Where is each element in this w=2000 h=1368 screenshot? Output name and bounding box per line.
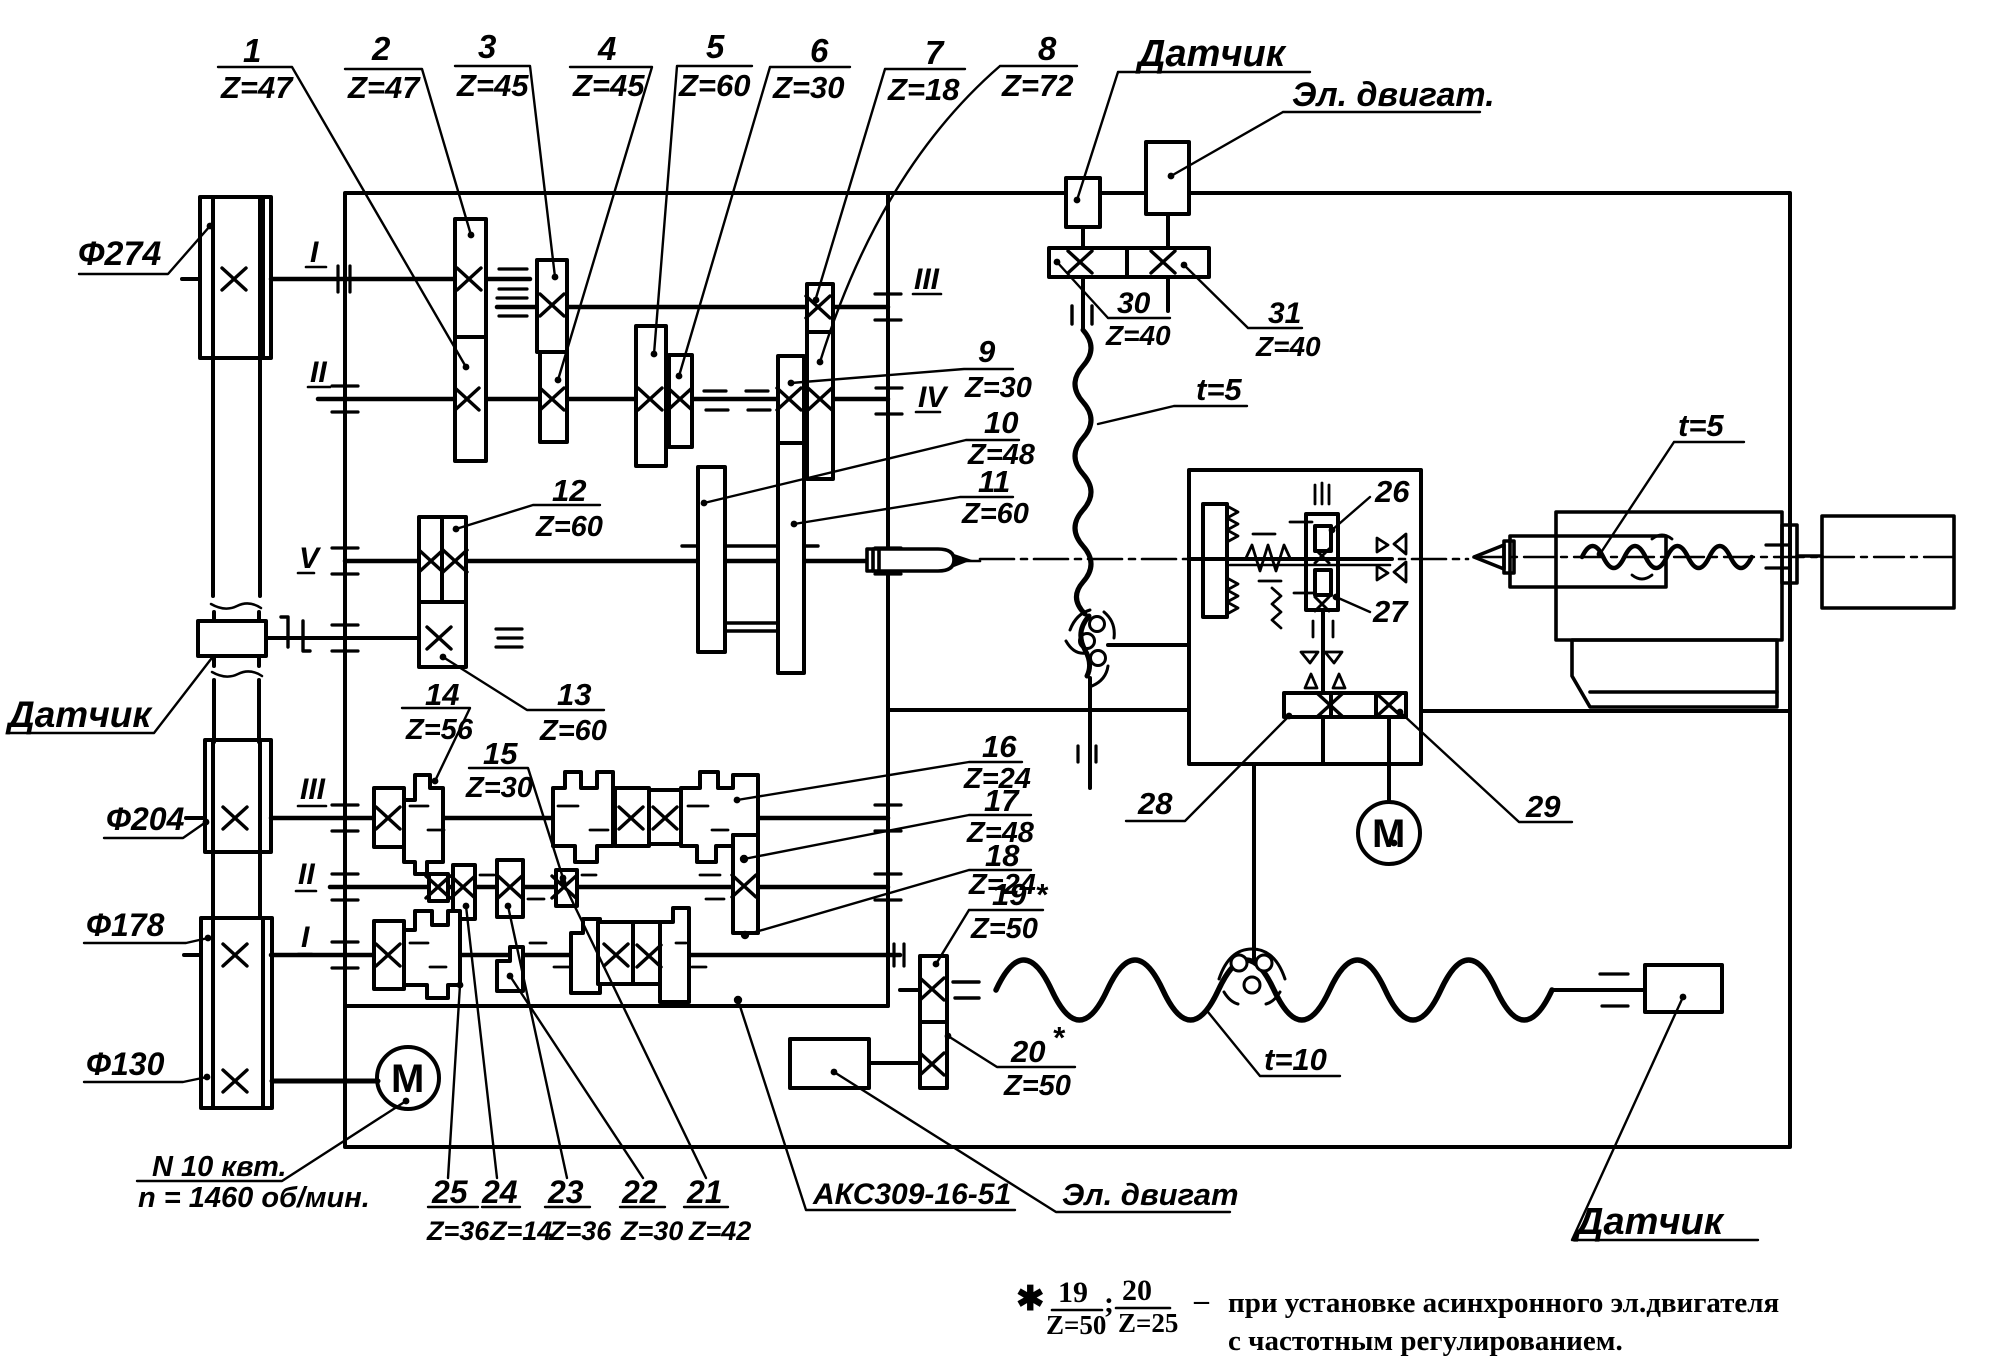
gear 14 Z=56 castle bbox=[404, 775, 443, 874]
svg-text:II: II bbox=[298, 858, 315, 891]
svg-text:Z=36: Z=36 bbox=[548, 1216, 612, 1246]
belt middle run bbox=[214, 612, 259, 666]
labels 15-19,20 bbox=[469, 762, 1075, 1067]
svg-text:I: I bbox=[310, 236, 319, 269]
svg-text:19: 19 bbox=[1058, 1276, 1088, 1309]
gear 30 Z=40 bbox=[1049, 248, 1127, 277]
svg-text:1: 1 bbox=[243, 32, 261, 69]
shaft II / IV bbox=[318, 397, 888, 402]
svg-text:Z=30: Z=30 bbox=[465, 772, 533, 804]
zigzag pawl bbox=[1272, 588, 1281, 628]
coupling sensor shaft bbox=[281, 617, 310, 651]
shaft II mid bearings bbox=[704, 391, 770, 410]
svg-text:31: 31 bbox=[1268, 297, 1301, 330]
label F204 leader bbox=[104, 822, 206, 838]
tailstock screw collar bbox=[1782, 525, 1797, 583]
svg-text:Датчик: Датчик bbox=[1135, 33, 1287, 75]
svg-text:Z=36: Z=36 bbox=[426, 1216, 490, 1246]
svg-text:t=5: t=5 bbox=[1196, 372, 1242, 407]
svg-text:Ф130: Ф130 bbox=[86, 1046, 165, 1082]
belt break squiggle bbox=[211, 603, 261, 608]
svg-text:Z=50: Z=50 bbox=[1046, 1310, 1106, 1340]
gear 13 Z=60 bbox=[419, 602, 466, 667]
vertical stubs sensor/motor to gears bbox=[1083, 214, 1168, 248]
svg-text:20: 20 bbox=[1122, 1274, 1152, 1307]
svg-text:Z=50: Z=50 bbox=[970, 913, 1038, 945]
gear 6 Z=30 bbox=[669, 355, 692, 447]
stub shaft to gear 19 bbox=[900, 988, 920, 992]
gear 11 Z=60 bbox=[778, 443, 804, 673]
sensor box right bbox=[1645, 965, 1722, 1012]
svg-text:Z=25: Z=25 bbox=[1118, 1308, 1178, 1338]
svg-text:;: ; bbox=[1104, 1286, 1114, 1319]
castle gear block shaft III left bbox=[553, 772, 613, 862]
svg-text:3: 3 bbox=[478, 28, 496, 65]
dog clutch triangles bbox=[1377, 538, 1388, 580]
gear 12 Z=60 bbox=[419, 517, 466, 602]
X marks lower gears bbox=[376, 807, 400, 829]
label F178 leader bbox=[84, 938, 208, 943]
vertical leadscrew t=5 wave bbox=[1075, 330, 1091, 614]
svg-text:M: M bbox=[391, 1057, 424, 1101]
castle gear block shaft III right bbox=[681, 772, 758, 862]
X marks gears 19/20 bbox=[920, 978, 944, 1000]
ball nut on t=10 bbox=[1219, 949, 1285, 1004]
labels top right bbox=[1057, 72, 1480, 424]
svg-text:Z=50: Z=50 bbox=[1003, 1070, 1071, 1102]
svg-text:16: 16 bbox=[982, 729, 1017, 764]
svg-text:Z=60: Z=60 bbox=[539, 715, 607, 747]
svg-text:Эл. двигат.: Эл. двигат. bbox=[1292, 76, 1495, 114]
svg-text:Z=30: Z=30 bbox=[620, 1216, 683, 1246]
belt upper run bbox=[213, 197, 260, 596]
leaders labels 21-25 and AKC bbox=[428, 985, 478, 1207]
svg-text:23: 23 bbox=[547, 1174, 584, 1210]
svg-text:II: II bbox=[310, 356, 327, 389]
feed leadscrew t=10 wave bbox=[996, 960, 1552, 1020]
t=10 screw end shaft bbox=[1552, 988, 1645, 992]
apron box bbox=[1189, 470, 1421, 764]
vertical link apron to t=10 nut bbox=[1252, 764, 1256, 958]
lower gearbox shafts bbox=[271, 818, 900, 955]
shaft V bbox=[345, 559, 868, 564]
svg-text:Z=40: Z=40 bbox=[1255, 331, 1321, 362]
svg-text:V: V bbox=[299, 542, 322, 575]
svg-text:28: 28 bbox=[1137, 786, 1173, 821]
leaders labels 26-29 bbox=[1332, 497, 1370, 530]
motor box top bbox=[1146, 142, 1189, 214]
bearing dashes before right sensor bbox=[1600, 974, 1628, 1006]
svg-text:Z=45: Z=45 bbox=[572, 68, 645, 103]
gear 5 Z=60 bbox=[636, 326, 666, 466]
shaft stubs left of pulleys bbox=[182, 279, 205, 955]
sensor shaft bbox=[266, 636, 419, 640]
svg-text:9: 9 bbox=[978, 334, 996, 369]
svg-text:22: 22 bbox=[621, 1174, 658, 1210]
wall bearing at center line bbox=[875, 548, 901, 574]
svg-text:7: 7 bbox=[925, 34, 945, 71]
pulley D274 bbox=[200, 197, 271, 358]
label F274 leader bbox=[79, 226, 210, 274]
svg-text:14: 14 bbox=[425, 677, 459, 712]
bore dashes lower gears bbox=[410, 806, 728, 967]
svg-text:Z=30: Z=30 bbox=[772, 70, 845, 105]
tailstock bbox=[1474, 512, 1954, 707]
gear 10 Z=48 bbox=[698, 467, 725, 652]
apron box bbox=[1189, 470, 1421, 958]
vertical shaft below halfnut bbox=[1321, 610, 1325, 764]
shaft III upper bbox=[497, 305, 888, 310]
svg-text:t=5: t=5 bbox=[1678, 408, 1724, 443]
svg-text:Z=42: Z=42 bbox=[688, 1216, 751, 1246]
svg-text:Z=18: Z=18 bbox=[887, 72, 960, 107]
svg-text:10: 10 bbox=[984, 405, 1018, 440]
gear 19 Z=50 bbox=[920, 956, 947, 1022]
svg-text:Z=60: Z=60 bbox=[678, 68, 751, 103]
svg-text:n = 1460 об/мин.: n = 1460 об/мин. bbox=[138, 1182, 370, 1214]
X marks upper gears bbox=[457, 268, 481, 290]
centre line bbox=[1474, 556, 1960, 558]
gear13 right bearing bbox=[496, 629, 522, 647]
svg-text:18: 18 bbox=[985, 838, 1020, 873]
shaft I right bearing bbox=[499, 269, 527, 289]
svg-text:M: M bbox=[1372, 812, 1405, 856]
svg-text:АКС309-16-51: АКС309-16-51 bbox=[812, 1178, 1011, 1211]
motor box AKC309 bbox=[790, 1039, 869, 1088]
svg-text:–: – bbox=[1193, 1284, 1210, 1317]
svg-text:Ф204: Ф204 bbox=[106, 801, 185, 837]
shaft III left bearing bbox=[497, 298, 527, 316]
svg-text:26: 26 bbox=[1374, 474, 1410, 509]
chuck / spindle nose bbox=[867, 549, 972, 571]
motor shaft to gear 20 bbox=[869, 1061, 920, 1065]
svg-text:t=10: t=10 bbox=[1264, 1042, 1327, 1077]
slide bracket bbox=[725, 623, 778, 631]
labels 26-29 bbox=[1126, 497, 1572, 822]
label t=5 tailstock leader bbox=[1600, 442, 1744, 554]
lower shaft I bbox=[271, 953, 900, 958]
gear with X shaft III a bbox=[615, 788, 649, 846]
svg-text:I: I bbox=[301, 921, 310, 954]
gears on lower shaft I bbox=[374, 921, 404, 989]
gear with X shaft III b bbox=[649, 790, 681, 844]
bottom labels 21-25 + AKC bbox=[428, 882, 1230, 1212]
halfnut 26/27 body bbox=[1306, 514, 1338, 610]
leader sensor right + t=10 label bbox=[1572, 997, 1758, 1240]
gear 8 Z=72 bbox=[807, 332, 833, 479]
X mark pulley F204 bbox=[223, 807, 247, 829]
lower shaft II bbox=[330, 885, 888, 890]
leaders top right labels bbox=[1077, 72, 1310, 200]
X mark pulley F274 bbox=[222, 268, 246, 290]
svg-text:Ф274: Ф274 bbox=[78, 235, 161, 273]
X marks gears 28/29 bbox=[1318, 694, 1342, 716]
svg-text:21: 21 bbox=[686, 1174, 723, 1210]
lower shaft III bbox=[271, 816, 888, 821]
X marks halfnut bbox=[1315, 549, 1329, 563]
svg-text:III: III bbox=[914, 263, 940, 296]
tailstock quill bbox=[1510, 536, 1666, 587]
spring bbox=[1246, 545, 1290, 571]
pulley D178/D130 block bbox=[201, 918, 272, 1108]
rack bar bbox=[1203, 504, 1227, 617]
shaft to motor M apron bbox=[1387, 717, 1391, 802]
outer frame bbox=[345, 193, 1790, 1147]
svg-text:Z=60: Z=60 bbox=[535, 511, 603, 543]
tailstock body bbox=[1556, 512, 1782, 640]
motor M apron circle bbox=[1358, 802, 1420, 864]
triangles on vertical shaft bbox=[1301, 652, 1342, 663]
belt lower run bbox=[213, 852, 260, 918]
svg-text:17: 17 bbox=[984, 783, 1020, 818]
gear 31 Z=40 bbox=[1127, 248, 1209, 277]
gear 16/17/18 column bbox=[733, 835, 758, 933]
leaders labels 9-14 bbox=[791, 369, 1013, 383]
svg-text:29: 29 bbox=[1525, 789, 1561, 824]
leaders labels 15-20 bbox=[469, 768, 563, 878]
motor M main circle bbox=[377, 1047, 439, 1109]
svg-text:✱: ✱ bbox=[1016, 1281, 1045, 1318]
svg-text:Z=14: Z=14 bbox=[489, 1216, 552, 1246]
svg-text:20: 20 bbox=[1010, 1034, 1045, 1069]
lower cluster gears: shaft III row bbox=[374, 772, 758, 1002]
gear on lower shaft III bbox=[374, 788, 404, 847]
shaft I bbox=[271, 277, 530, 282]
svg-text:при установке асинхронного эл.: при установке асинхронного эл.двигателя bbox=[1228, 1287, 1779, 1319]
shaft roman labels bbox=[296, 267, 941, 954]
gear 3 Z=45 bbox=[537, 260, 567, 352]
gears on lower shaft II bbox=[453, 865, 475, 919]
svg-text:IV: IV bbox=[918, 381, 949, 414]
X mark pulley F130 bbox=[223, 1070, 247, 1092]
svg-text:25: 25 bbox=[431, 1174, 469, 1210]
svg-text:Z=40: Z=40 bbox=[1105, 320, 1171, 351]
svg-text:Z=60: Z=60 bbox=[961, 498, 1029, 530]
ball nut on vertical screw bbox=[1090, 617, 1105, 632]
svg-text:12: 12 bbox=[552, 473, 586, 508]
label F130 leader bbox=[84, 1077, 207, 1082]
gear 20 Z=50 bbox=[920, 1022, 947, 1088]
motor shaft to M bbox=[272, 1079, 378, 1084]
X mark pulley F178 bbox=[223, 944, 247, 966]
partition wall bbox=[886, 193, 890, 1006]
svg-text:Z=72: Z=72 bbox=[1001, 68, 1074, 103]
shaft I label bearing ticks bbox=[338, 266, 350, 292]
svg-text:13: 13 bbox=[557, 677, 591, 712]
vertical leadscrew t=5 bbox=[1075, 330, 1091, 788]
footnote text bbox=[1016, 1274, 1779, 1357]
ball nut on t=10 screw bbox=[1219, 949, 1285, 979]
svg-text:Эл. двигат: Эл. двигат bbox=[1062, 1177, 1239, 1212]
sensor box left bbox=[198, 617, 419, 1081]
bed line left of apron bbox=[888, 708, 1189, 712]
underlines shaft roman numerals bbox=[306, 266, 326, 269]
gear 1 Z=47 bbox=[455, 337, 486, 461]
svg-text:Z=30: Z=30 bbox=[964, 372, 1032, 404]
svg-text:Датчик: Датчик bbox=[1573, 1201, 1725, 1243]
svg-text:19 *: 19 * bbox=[992, 877, 1049, 912]
spindle center line bbox=[480, 560, 980, 563]
sensor label leader bbox=[7, 650, 218, 733]
nut to apron connector bbox=[1108, 643, 1189, 647]
t=10 leadscrew bbox=[996, 960, 1552, 1020]
tailstock screw t=5 wave bbox=[1582, 546, 1752, 568]
bearing ticks vertical screw bbox=[1078, 746, 1096, 762]
svg-text:Ф178: Ф178 bbox=[86, 907, 165, 943]
leader dots left labels bbox=[207, 223, 214, 230]
N10kvt underline + leader to M bbox=[137, 1101, 406, 1181]
tailstock dead centre bbox=[1474, 545, 1504, 569]
bearing ticks below nut bbox=[1313, 621, 1333, 637]
svg-text:Z=47: Z=47 bbox=[347, 70, 421, 105]
svg-text:III: III bbox=[300, 773, 326, 806]
svg-text:8: 8 bbox=[1038, 30, 1057, 67]
svg-text:15: 15 bbox=[483, 736, 518, 771]
svg-text:Z=56: Z=56 bbox=[405, 714, 474, 746]
gear10/11 slide bar bbox=[682, 544, 818, 547]
motor M lower-left bbox=[377, 1047, 439, 1109]
X marks gears 30/31 bbox=[1068, 251, 1092, 273]
spindle chuck nose bbox=[867, 549, 954, 571]
frame bearings x=345 bbox=[332, 386, 358, 412]
svg-text:N 10 квт.: N 10 квт. bbox=[152, 1151, 287, 1183]
svg-text:30: 30 bbox=[1117, 287, 1151, 320]
gear 4 Z=45 bbox=[540, 352, 567, 442]
leadscrew through apron bbox=[1189, 557, 1392, 561]
gear 7 Z=18 bbox=[807, 284, 833, 332]
svg-text:2: 2 bbox=[371, 30, 391, 67]
inner gearbox bottom bbox=[345, 1004, 888, 1008]
svg-text:11: 11 bbox=[978, 464, 1010, 499]
svg-text:6: 6 bbox=[810, 32, 829, 69]
right side labels 9,10,11 and 12,13,14 bbox=[402, 369, 1019, 781]
tailstock base bbox=[1572, 640, 1777, 707]
gear 28/29 assembly bbox=[1284, 693, 1331, 717]
gear 2 Z=47 bbox=[455, 219, 486, 337]
gear 19/20 column bbox=[920, 956, 947, 1088]
svg-text:с частотным регулированием.: с частотным регулированием. bbox=[1228, 1325, 1623, 1357]
gear 9 Z=30 bbox=[778, 356, 804, 443]
pulley D204 bbox=[205, 740, 271, 852]
tailstock handwheel box bbox=[1822, 516, 1954, 608]
svg-text:Z=47: Z=47 bbox=[220, 70, 294, 105]
svg-text:24: 24 bbox=[481, 1174, 518, 1210]
leader lines labels 1-8 bbox=[218, 67, 466, 367]
sensor box left bbox=[198, 621, 266, 656]
svg-text:Датчик: Датчик bbox=[5, 694, 153, 735]
svg-text:27: 27 bbox=[1372, 594, 1409, 629]
rack teeth bbox=[1227, 506, 1238, 542]
svg-text:Z=45: Z=45 bbox=[456, 68, 529, 103]
svg-text:*: * bbox=[1052, 1020, 1066, 1055]
svg-text:4: 4 bbox=[597, 30, 616, 67]
sensor box top bbox=[1066, 178, 1100, 227]
svg-text:5: 5 bbox=[706, 28, 725, 65]
bearings lower shafts bbox=[332, 805, 358, 831]
small gear below 14 bbox=[429, 874, 448, 901]
bed line right of apron bbox=[1421, 709, 1790, 713]
shaft IV wall bearing bbox=[876, 388, 902, 414]
